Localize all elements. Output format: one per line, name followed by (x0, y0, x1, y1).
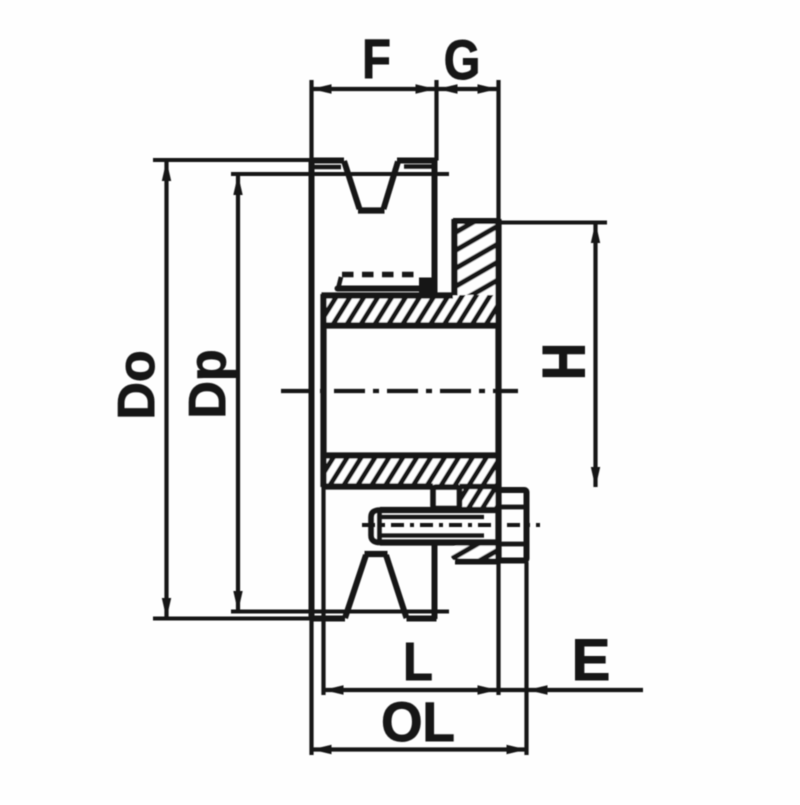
svg-text:OL: OL (381, 691, 455, 754)
lower hub band top edge (322, 452, 499, 458)
top rim surface left (312, 158, 345, 164)
flange top edge (453, 218, 501, 224)
top lip line right (404, 164, 437, 169)
dimension line L and E (324, 688, 644, 692)
bolt thread line lower (380, 533, 485, 537)
rim right face upper (432, 160, 438, 296)
arrow G right (478, 84, 498, 93)
arrow L left (324, 685, 344, 694)
arrow F left (312, 84, 332, 93)
svg-text:Dp: Dp (179, 349, 237, 418)
bottom rim surface left (312, 616, 346, 622)
extension line G right top (496, 80, 500, 221)
arrow L right (478, 685, 498, 694)
extension line OL right (524, 562, 528, 755)
extension line Dp bottom (231, 610, 449, 614)
arrow Do bottom (162, 598, 171, 619)
extension line F right top (434, 80, 438, 161)
bolt centerline (362, 523, 540, 527)
svg-text:G: G (444, 28, 481, 91)
extension line F left top (309, 80, 313, 158)
bottom V-groove left wall (345, 555, 366, 618)
hatch region bushing flange at bolt (460, 486, 499, 510)
bottom V-groove top flat (365, 551, 388, 557)
top lip line left (313, 165, 341, 170)
dimension line H (593, 223, 597, 487)
arrow Do top (162, 161, 171, 182)
flange left edge (451, 219, 457, 296)
svg-text:F: F (362, 27, 391, 90)
arrow OL left (312, 745, 332, 754)
lower hub band bottom edge (322, 483, 434, 489)
bolt shaft top edge (380, 507, 499, 513)
svg-text:H: H (530, 343, 598, 380)
extension line L left (321, 487, 325, 695)
rim right face lower (432, 544, 438, 619)
hub top edge (322, 292, 454, 298)
bolt head chamfer lower (499, 542, 527, 547)
flange right edge (495, 219, 501, 562)
sheave left face (309, 158, 315, 619)
bushing flange hidden edge dashed (342, 272, 414, 278)
hatch region upper hub band (323, 295, 499, 326)
extension line L right (496, 562, 500, 696)
bushing lug square (433, 487, 460, 509)
top rim surface right (397, 158, 437, 164)
bolt end chamfer line (377, 510, 382, 543)
bushing flange band top edge right of lug (460, 484, 499, 490)
top V-groove right wall (384, 162, 399, 210)
bushing flange right end block (419, 278, 436, 296)
extension line Do top (153, 158, 312, 162)
svg-text:L: L (403, 631, 433, 692)
bottom V-groove right wall (386, 555, 407, 618)
arrow H top (591, 223, 600, 244)
bolt head chamfer upper (499, 505, 527, 510)
dimension line Do (164, 161, 168, 618)
svg-text:E: E (572, 628, 611, 693)
top V-groove bottom flat (358, 207, 385, 213)
arrow F right (416, 84, 436, 93)
bushing flange left corner (339, 277, 342, 287)
top V-groove left wall (344, 161, 360, 209)
bushing flange front edge (338, 286, 420, 292)
flange bottom edge (455, 559, 499, 565)
dimension line OL (312, 747, 527, 751)
bolt shaft left end (371, 510, 380, 543)
arrow G left (438, 84, 458, 93)
bolt head outline (499, 490, 527, 561)
extension line Do bottom (153, 617, 312, 621)
bolt thread line upper (380, 515, 485, 519)
arrow H bottom (591, 467, 600, 488)
centerline main (281, 389, 518, 393)
hub left face (320, 294, 326, 487)
svg-text:Do: Do (108, 350, 166, 419)
extension line OL left (309, 619, 313, 755)
upper hub band bottom edge (322, 322, 499, 328)
arrow OL right (507, 745, 527, 754)
hatch region upper hub and flange (453, 221, 499, 295)
extension line H top (501, 221, 608, 225)
bottom rim surface right (407, 616, 437, 622)
arrow Dp bottom (233, 591, 242, 612)
dimension line F G (312, 87, 499, 91)
hatch region lower hub band (323, 456, 499, 487)
bolt shaft bottom edge (380, 539, 499, 545)
arrow Dp top (233, 175, 242, 196)
hatch region below bolt (451, 544, 499, 562)
extension line Dp top (231, 172, 449, 176)
dimension line Dp (236, 175, 240, 611)
arrow E left (528, 685, 548, 694)
